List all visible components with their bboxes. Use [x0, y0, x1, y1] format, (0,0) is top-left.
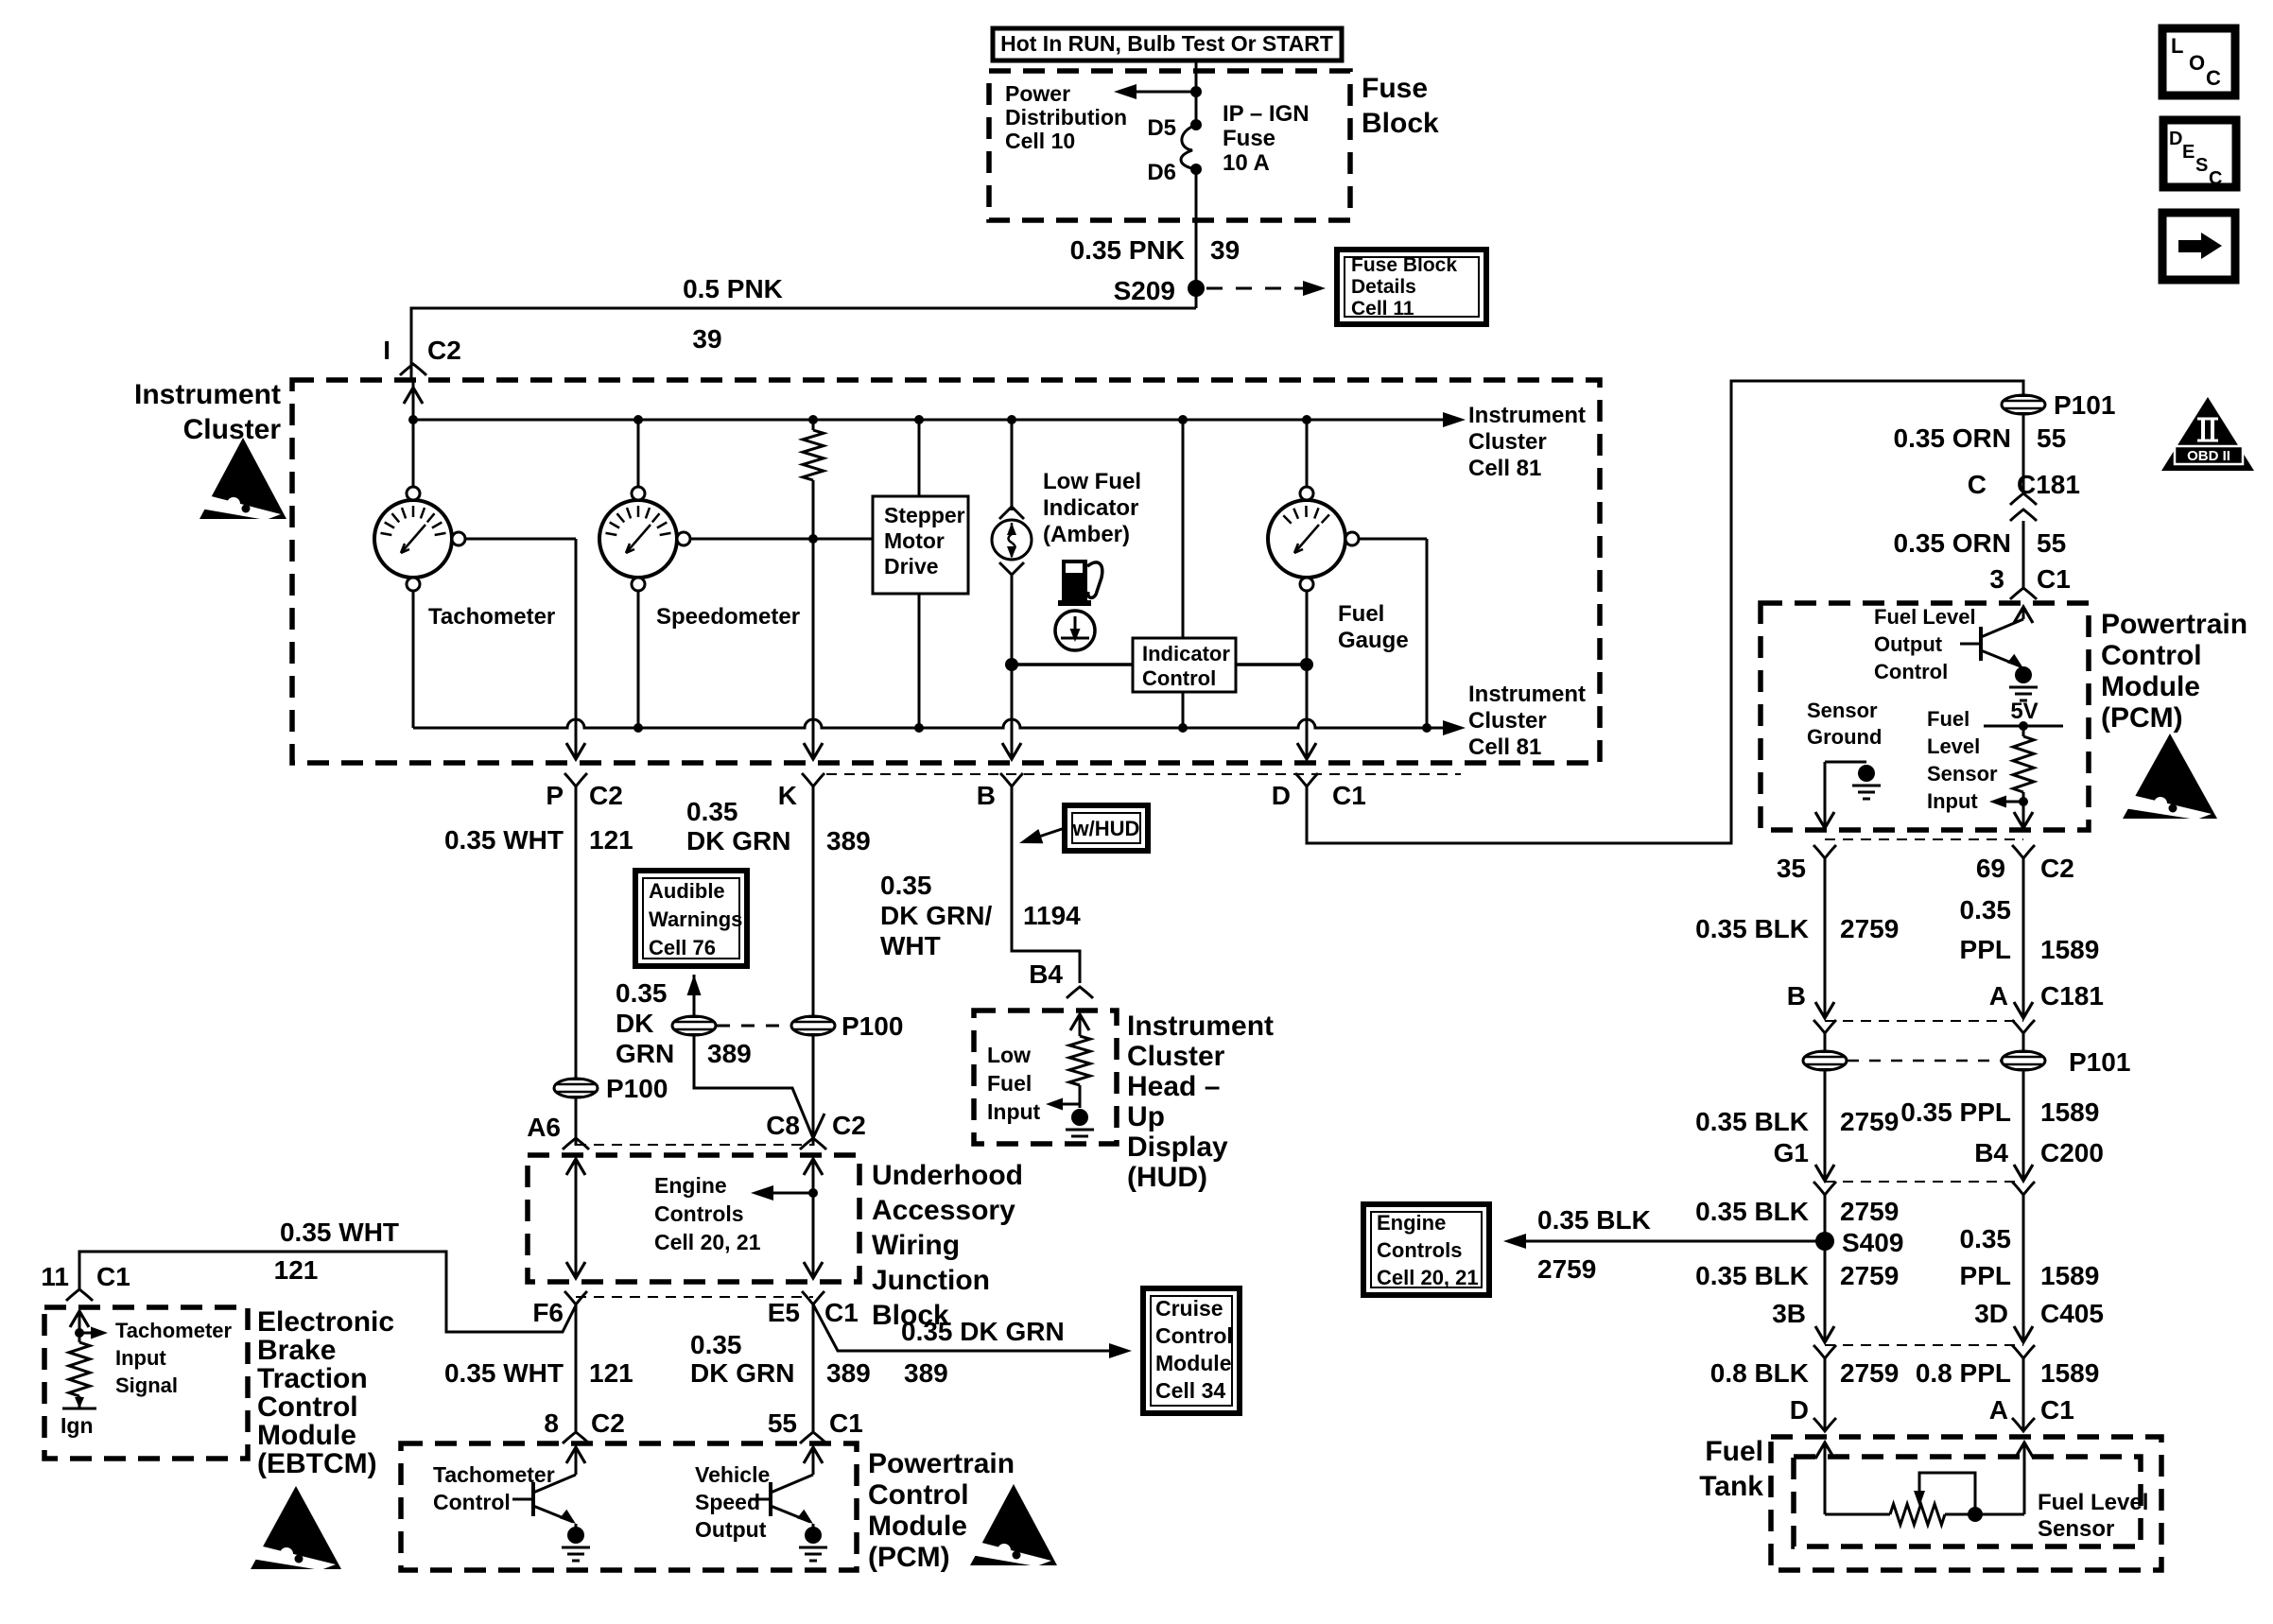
label 0.35 BLK 2759 row3 [1695, 1197, 1899, 1226]
svg-text:1194: 1194 [1023, 901, 1081, 930]
svg-text:0.35 BLK: 0.35 BLK [1695, 1197, 1809, 1226]
svg-text:2759: 2759 [1840, 1107, 1899, 1136]
svg-text:O: O [2189, 51, 2205, 75]
svg-text:C1: C1 [96, 1262, 130, 1291]
transistor Q tachometer control [512, 1475, 576, 1524]
connector P101 top [2002, 390, 2115, 420]
label 0.35 BLK 2759 branch [1537, 1205, 1651, 1284]
svg-text:55: 55 [2037, 423, 2066, 453]
EBTCM dashed boundary [44, 1307, 248, 1459]
svg-text:A: A [1989, 1395, 2008, 1425]
wire K column upper [812, 786, 815, 1146]
svg-text:0.35 WHT: 0.35 WHT [444, 1358, 564, 1388]
label Fuel Level Sensor Input [1927, 707, 1998, 813]
svg-text:Fuel: Fuel [987, 1071, 1032, 1096]
svg-text:121: 121 [589, 825, 633, 855]
label Tachometer Input Signal [115, 1319, 233, 1397]
svg-text:Audible: Audible [649, 879, 725, 903]
svg-text:Underhood: Underhood [872, 1160, 1023, 1191]
reference box Audible Warnings Cell 76 [635, 871, 747, 966]
svg-text:10 A: 10 A [1223, 150, 1270, 176]
svg-text:Electronic: Electronic [257, 1306, 394, 1338]
label 0.35 DK GRN WHT 1194 [880, 871, 1081, 960]
label 39 [692, 324, 721, 354]
pin F6 label [532, 1291, 587, 1327]
reference box Engine Controls Cell 20 21 [1363, 1204, 1489, 1295]
pin D connector C1 labels [1272, 773, 1366, 810]
svg-text:C: C [1968, 470, 1987, 499]
svg-text:C1: C1 [2037, 564, 2071, 594]
EBTCM pull-up resistor [69, 1342, 90, 1408]
svg-text:B: B [1787, 981, 1806, 1011]
svg-text:Module: Module [1155, 1351, 1232, 1375]
label 0.35 BLK 2759 row1 [1695, 914, 1899, 943]
resistor in cluster on K line [803, 420, 824, 539]
HUD input arrow [1070, 1014, 1089, 1036]
fuel pump pictograph [1058, 560, 1102, 606]
svg-text:389: 389 [904, 1358, 948, 1388]
svg-text:(Amber): (Amber) [1043, 522, 1130, 547]
svg-text:Instrument: Instrument [1468, 682, 1586, 707]
svg-text:C2: C2 [427, 336, 461, 365]
svg-text:1589: 1589 [2040, 1358, 2099, 1388]
C405 chevrons [1813, 1345, 2035, 1358]
svg-text:P101: P101 [2054, 390, 2115, 420]
label Instrument Cluster Head-Up Display HUD [1127, 1011, 1274, 1193]
svg-text:Instrument: Instrument [1468, 403, 1586, 428]
wire P column lower to PCM [575, 1304, 578, 1433]
wire K column lower to PCM [812, 1304, 815, 1433]
low fuel indicator lamp [992, 520, 1032, 560]
wire fuel gauge bottom [1300, 591, 1313, 719]
wire speedo output to stepper [690, 534, 873, 544]
svg-text:Tachometer: Tachometer [115, 1319, 233, 1342]
svg-text:C1: C1 [2040, 1395, 2074, 1425]
low fuel gauge pictograph [1055, 611, 1095, 650]
label Underhood Accessory Wiring Junction Block [872, 1160, 1023, 1331]
svg-text:1589: 1589 [2040, 1261, 2099, 1290]
svg-text:Cell 81: Cell 81 [1468, 734, 1541, 760]
svg-text:Cell 10: Cell 10 [1005, 129, 1075, 153]
svg-text:C1: C1 [829, 1408, 863, 1438]
icon box forward arrow [2162, 213, 2235, 280]
label 0.35 PPL 1589 row2 [1900, 1097, 2099, 1127]
sensor ground wire [1815, 762, 1866, 828]
label Low Fuel Input inside HUD [987, 1043, 1041, 1124]
svg-text:Instrument: Instrument [134, 379, 281, 410]
label Low Fuel Indicator (Amber) [1043, 469, 1141, 547]
wire tach right to P column [465, 539, 576, 719]
svg-text:Tachometer: Tachometer [428, 604, 555, 630]
label Fuel Level Sensor [2038, 1490, 2148, 1542]
svg-text:Speed: Speed [695, 1490, 760, 1514]
pin I connector C2 [383, 336, 461, 375]
wire lamp to indicator box [1012, 663, 1133, 666]
pin P connector C2 labels [546, 773, 622, 810]
pin 8 connector C2 labels [544, 1408, 624, 1443]
svg-text:Low: Low [987, 1043, 1031, 1067]
fuel level sensor dashed boundary [1794, 1457, 2141, 1546]
svg-text:C1: C1 [1332, 781, 1366, 810]
HUD low fuel resistor [1069, 1036, 1090, 1108]
svg-text:Instrument: Instrument [1127, 1011, 1274, 1042]
svg-text:C: C [2209, 168, 2222, 189]
svg-text:55: 55 [768, 1408, 797, 1438]
label Fuel Level Output Control [1874, 605, 1976, 683]
svg-text:Cell 34: Cell 34 [1155, 1378, 1225, 1403]
connector P100 on audible tap [672, 1016, 716, 1035]
svg-text:Block: Block [1362, 108, 1439, 139]
sender wire D inside tank [1815, 1443, 1890, 1514]
wire indicator top [1182, 420, 1185, 638]
label 0.35 WHT 121 lower [444, 1358, 633, 1388]
svg-text:0.8 BLK: 0.8 BLK [1710, 1358, 1809, 1388]
thin dashed line at A6 C8 [576, 1144, 813, 1146]
thin dashed line at F6 E5 [576, 1296, 813, 1298]
engine controls branch wire [1503, 1234, 1825, 1249]
lamp socket chevron top [999, 507, 1024, 519]
svg-text:DK: DK [616, 1009, 653, 1038]
wire 69 PPL to C181 [2014, 858, 2033, 1018]
svg-text:Cruise: Cruise [1155, 1296, 1223, 1321]
svg-text:Engine: Engine [1377, 1211, 1446, 1235]
instrument cluster dashed boundary [292, 380, 1600, 763]
svg-text:Signal: Signal [115, 1373, 178, 1397]
wire BLK to S409 [1824, 1195, 1827, 1241]
OBD II symbol [2161, 397, 2254, 471]
svg-text:G1: G1 [1774, 1138, 1809, 1167]
wire fuel gauge output [1359, 539, 1427, 728]
svg-text:121: 121 [589, 1358, 633, 1388]
svg-text:389: 389 [826, 826, 871, 855]
node D6 [1147, 160, 1202, 185]
pin C8 C2 labels [766, 1111, 866, 1149]
wire P to junction block [575, 1097, 578, 1146]
svg-text:Controls: Controls [654, 1201, 744, 1226]
svg-text:0.35 PPL: 0.35 PPL [1900, 1097, 2011, 1127]
wire K line down [812, 539, 815, 719]
ESD symbol instrument cluster [195, 438, 286, 520]
svg-text:C2: C2 [591, 1408, 625, 1438]
pin K label [778, 773, 824, 810]
svg-text:389: 389 [707, 1039, 752, 1068]
wire B to P101 [1824, 1033, 1827, 1051]
svg-text:11: 11 [41, 1262, 69, 1291]
lamp socket chevron bottom [999, 562, 1024, 575]
HUD low fuel input arrow [1046, 1098, 1080, 1111]
svg-text:0.35 WHT: 0.35 WHT [280, 1218, 399, 1247]
svg-text:121: 121 [274, 1255, 319, 1285]
wire cluster feed [412, 380, 415, 488]
svg-text:0.35 BLK: 0.35 BLK [1537, 1205, 1651, 1235]
svg-text:P101: P101 [2069, 1047, 2130, 1077]
ESD symbol PCM right [2118, 734, 2217, 820]
pin 55 connector C1 labels [768, 1408, 863, 1443]
svg-text:Controls: Controls [1377, 1238, 1462, 1262]
svg-text:P: P [546, 781, 564, 810]
svg-text:0.35: 0.35 [1960, 895, 2012, 924]
svg-text:C8: C8 [766, 1111, 800, 1140]
cruise control branch wire [813, 1304, 1132, 1358]
transistor Q vehicle speed output [750, 1475, 813, 1524]
wire PPL to C200 [2014, 1070, 2033, 1181]
fuel tank dashed boundary [1771, 1437, 2161, 1570]
label 0.35 BLK 2759 row2 [1695, 1107, 1899, 1136]
svg-text:Engine: Engine [654, 1173, 727, 1198]
connector P100 on P wire [554, 1074, 668, 1103]
label 5V [2010, 699, 2038, 724]
wire B column to HUD [1012, 786, 1080, 983]
svg-text:Input: Input [115, 1346, 166, 1370]
svg-text:D6: D6 [1147, 160, 1176, 185]
wire PPL to C405 [2014, 1195, 2033, 1342]
exit arrow K [804, 719, 823, 759]
stepper motor drive box [873, 496, 968, 594]
svg-text:1589: 1589 [2040, 935, 2099, 964]
svg-text:Indicator: Indicator [1142, 642, 1230, 665]
label Instrument Cluster [134, 379, 281, 445]
svg-text:WHT: WHT [880, 931, 941, 960]
svg-text:1589: 1589 [2040, 1097, 2099, 1127]
label Power Distribution Cell 10 [1005, 81, 1127, 153]
svg-text:Vehicle: Vehicle [695, 1462, 770, 1487]
svg-text:Display: Display [1127, 1132, 1228, 1163]
label 0.35 WHT 121 upper [444, 825, 633, 855]
wire fuse to S209 [1195, 169, 1198, 308]
svg-text:39: 39 [1210, 235, 1240, 265]
svg-text:0.35 DK GRN: 0.35 DK GRN [901, 1317, 1065, 1346]
svg-text:Ground: Ground [1807, 725, 1882, 749]
svg-text:0.5 PNK: 0.5 PNK [683, 274, 783, 303]
sender wire A inside tank [2015, 1443, 2034, 1514]
svg-text:Cluster: Cluster [1468, 708, 1547, 734]
svg-text:389: 389 [826, 1358, 871, 1388]
svg-text:Ign: Ign [61, 1413, 94, 1438]
svg-text:Accessory: Accessory [872, 1195, 1015, 1226]
label Fuel Gauge [1338, 601, 1409, 653]
connector P100 on K wire [791, 1011, 903, 1041]
svg-text:P100: P100 [606, 1074, 668, 1103]
svg-text:Module: Module [2101, 671, 2200, 702]
wire A to P101 [2022, 1033, 2025, 1051]
svg-text:Drive: Drive [884, 554, 939, 579]
pin 69 connector C2 labels [1976, 845, 2074, 883]
svg-text:8: 8 [544, 1408, 559, 1438]
svg-text:PPL: PPL [1960, 935, 2011, 964]
wire indicator box to fuel gauge [1236, 663, 1307, 666]
pin C connector C181 labels [1968, 470, 2080, 521]
pin B label [977, 773, 1023, 810]
fuse F1 IP-IGN 10A [1181, 101, 1310, 176]
label Tachometer [428, 604, 555, 630]
svg-text:(PCM): (PCM) [868, 1542, 950, 1573]
splice S209 [1114, 276, 1205, 305]
svg-text:IP – IGN: IP – IGN [1223, 101, 1310, 127]
label Vehicle Speed Output [695, 1462, 770, 1542]
fuel gauge [1268, 487, 1359, 591]
label Tachometer Control [433, 1462, 555, 1514]
wire stepper bottom [918, 594, 921, 728]
dashed link between P100 halves [717, 1025, 790, 1028]
label 0.35 ORN 55 lower [1894, 528, 2067, 558]
tank entry chevrons [1813, 1418, 2035, 1431]
svg-text:0.35 ORN: 0.35 ORN [1894, 528, 2012, 558]
label Engine Controls Cell 20 21 inside junction block [654, 1173, 761, 1254]
wire stepper top [918, 420, 921, 496]
wire from title box to fuse D5 [1195, 60, 1198, 125]
sensor ground symbol [1852, 765, 1881, 799]
svg-text:Gauge: Gauge [1338, 628, 1409, 653]
svg-text:Hot In RUN, Bulb Test Or START: Hot In RUN, Bulb Test Or START [1000, 31, 1333, 56]
svg-text:C181: C181 [2040, 981, 2104, 1011]
svg-text:Fuse: Fuse [1362, 73, 1428, 104]
pin 3 connector C1 labels [1989, 564, 2070, 599]
ESD symbol PCM bottom [965, 1484, 1057, 1566]
svg-text:(PCM): (PCM) [2101, 702, 2183, 734]
label 0.35 DK GRN 389 audible [616, 978, 752, 1068]
svg-text:5V: 5V [2010, 699, 2038, 724]
title box: Hot In RUN, Bulb Test Or START [993, 28, 1342, 60]
exit arrow B [1002, 719, 1021, 759]
top bus arrow to cell 81 [1443, 412, 1466, 427]
svg-text:DK GRN: DK GRN [686, 826, 790, 855]
entry arrow into cluster [404, 388, 423, 404]
svg-text:E: E [2182, 142, 2195, 163]
pin 35 label [1777, 845, 1836, 883]
thin dashed line C200 [1825, 1181, 2023, 1183]
label 0.35 WHT 121 EBTCM [274, 1218, 399, 1285]
wire BLK S409 to C405 [1815, 1241, 1834, 1342]
svg-text:Cell 81: Cell 81 [1468, 456, 1541, 481]
label Instrument Cluster Cell 81 top [1468, 403, 1586, 481]
thin dashed line PCM C2 pins [1825, 838, 2023, 840]
pin 11 connector C1 labels [41, 1262, 130, 1301]
svg-text:(EBTCM): (EBTCM) [257, 1448, 377, 1479]
HUD ground [1066, 1109, 1094, 1143]
dashed reference arrow to fuse block details [1206, 281, 1326, 296]
wire speedo bottom [637, 591, 640, 728]
svg-text:0.35: 0.35 [616, 978, 668, 1008]
splice S409 [1815, 1228, 1903, 1257]
svg-text:Fuel: Fuel [1927, 707, 1969, 731]
svg-text:C2: C2 [589, 781, 623, 810]
power distribution feed arrow [1114, 84, 1202, 99]
indicator control box [1133, 638, 1236, 692]
label 0.35 PPL 1589 row1 [1960, 895, 2100, 964]
audible warnings tap wire [687, 975, 814, 1138]
svg-text:D: D [1272, 781, 1291, 810]
svg-text:Fuel: Fuel [1705, 1436, 1763, 1467]
EBTCM entry arrow [70, 1311, 89, 1342]
svg-text:GRN: GRN [616, 1039, 674, 1068]
svg-text:K: K [778, 781, 797, 810]
svg-text:0.35: 0.35 [690, 1330, 742, 1359]
reference box Fuse Block Details Cell 11 [1337, 250, 1486, 324]
w/HUD pointer arrow [1019, 828, 1065, 843]
EBTCM feed wire [79, 1252, 576, 1332]
wire tach bottom [412, 591, 415, 728]
svg-text:Stepper: Stepper [884, 503, 965, 527]
svg-text:Distribution: Distribution [1005, 105, 1127, 130]
sender output segment [1945, 1507, 2024, 1522]
svg-text:3: 3 [1989, 564, 2004, 594]
svg-text:Fuel: Fuel [1338, 601, 1384, 627]
svg-text:Cluster: Cluster [183, 414, 282, 445]
svg-text:Sensor: Sensor [2038, 1516, 2114, 1542]
speedometer gauge [599, 487, 690, 591]
svg-text:Cluster: Cluster [1127, 1041, 1225, 1072]
bottom bus arrow to cell 81 [1443, 720, 1466, 735]
svg-text:B: B [977, 781, 996, 810]
svg-text:2759: 2759 [1840, 1261, 1899, 1290]
svg-text:B4: B4 [1974, 1138, 2008, 1167]
label Electronic Brake Traction Control Module EBTCM [257, 1306, 394, 1479]
svg-text:Sensor: Sensor [1927, 762, 1998, 786]
label Instrument Cluster Cell 81 bottom [1468, 682, 1586, 760]
svg-text:Input: Input [987, 1099, 1041, 1124]
label Sensor Ground [1807, 699, 1882, 749]
svg-text:Control: Control [433, 1490, 511, 1514]
svg-text:OBD II: OBD II [2187, 448, 2230, 464]
thin dashed line C405 [1825, 1344, 2023, 1346]
svg-text:Powertrain: Powertrain [868, 1448, 1015, 1479]
instrument cluster HUD dashed boundary [974, 1011, 1117, 1144]
svg-text:Sensor: Sensor [1807, 699, 1878, 722]
svg-text:E5: E5 [768, 1298, 800, 1327]
svg-text:Control: Control [1155, 1323, 1233, 1348]
svg-text:Control: Control [868, 1479, 969, 1511]
wire into fuel level output transistor [2014, 607, 2033, 623]
vehicle speed entry arrow [804, 1447, 823, 1475]
svg-text:Low Fuel: Low Fuel [1043, 469, 1141, 494]
svg-text:C200: C200 [2040, 1138, 2104, 1167]
svg-text:S209: S209 [1114, 276, 1175, 305]
svg-text:w/HUD: w/HUD [1072, 817, 1140, 840]
junction block P pass-through [566, 1159, 585, 1278]
svg-text:Head –: Head – [1127, 1071, 1220, 1102]
svg-text:0.35 BLK: 0.35 BLK [1695, 1107, 1809, 1136]
icon box DESC [2163, 120, 2236, 189]
pin 3B label [1772, 1299, 1806, 1328]
svg-text:3D: 3D [1974, 1299, 2008, 1328]
wire P column upper [575, 786, 578, 1079]
pin A6 label [527, 1113, 589, 1149]
Ign terminal [61, 1397, 96, 1438]
tachometer control ground [562, 1524, 590, 1561]
wire fuel gauge top [1306, 420, 1309, 488]
svg-text:Up: Up [1127, 1101, 1165, 1132]
svg-text:2759: 2759 [1840, 914, 1899, 943]
svg-text:0.35 ORN: 0.35 ORN [1894, 423, 2012, 453]
thin dashed line C181 lower [1825, 1020, 2023, 1022]
ESD symbol EBTCM [246, 1486, 341, 1570]
label Speedometer [656, 604, 800, 630]
svg-text:2759: 2759 [1840, 1358, 1899, 1388]
svg-text:DK GRN/: DK GRN/ [880, 901, 992, 930]
svg-text:Control: Control [1142, 666, 1216, 690]
tachometer gauge [374, 487, 465, 591]
label 0.35 PPL 1589 row4 [1960, 1224, 2100, 1290]
label 0.5 PNK [683, 274, 783, 303]
pin G1 label [1774, 1138, 1809, 1167]
svg-text:Indicator: Indicator [1043, 495, 1138, 521]
wire 69 exit [2014, 802, 2033, 828]
svg-text:D: D [2169, 129, 2182, 149]
svg-text:Module: Module [868, 1511, 967, 1542]
svg-text:Cell 11: Cell 11 [1351, 298, 1414, 320]
label 0.8 BLK 2759 0.8 PPL 1589 [1710, 1358, 2100, 1388]
svg-text:0.35: 0.35 [1960, 1224, 2012, 1253]
